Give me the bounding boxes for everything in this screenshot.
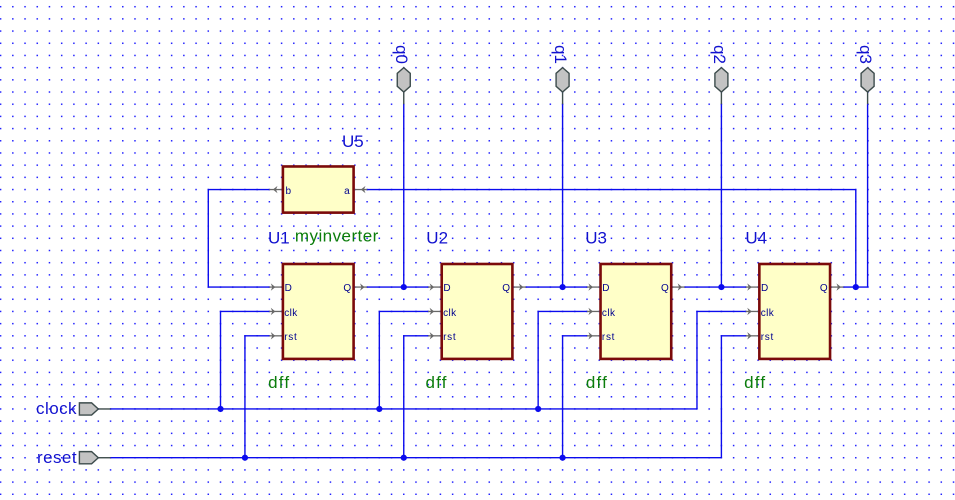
svg-text:dff: dff: [744, 373, 766, 392]
svg-text:Q: Q: [502, 283, 510, 294]
pin clk: [428, 310, 440, 312]
svg-text:b: b: [285, 186, 291, 197]
pin Q: [673, 286, 685, 288]
svg-text:Q: Q: [343, 283, 351, 294]
svg-text:a: a: [344, 186, 350, 197]
svg-text:clk: clk: [284, 308, 298, 319]
svg-text:rst: rst: [284, 332, 297, 343]
svg-text:myinverter: myinverter: [295, 226, 379, 245]
junction reset at U2 tap: [401, 455, 407, 461]
output port q1: [556, 68, 569, 105]
wire U4.Q to q3: [844, 286, 868, 288]
wire clock riser to U3 clk: [538, 311, 587, 409]
wire q0 vertical: [403, 104, 405, 287]
wire q1 vertical: [562, 104, 564, 287]
junction reset at U3 tap: [559, 455, 565, 461]
junction q0 on Q wire: [401, 284, 407, 290]
pin b (output): [269, 189, 281, 191]
pin D: [746, 286, 758, 288]
junction clock at U2 tap: [376, 406, 382, 412]
svg-text:q3: q3: [856, 45, 875, 64]
junction reset at U1 tap: [242, 455, 248, 461]
svg-text:q2: q2: [710, 45, 729, 64]
junction q2 on Q wire: [718, 284, 724, 290]
flip-flop U2 (dff): [428, 264, 526, 359]
wire clock net horizontal: [110, 408, 697, 410]
pin clk: [269, 310, 281, 312]
wire q2 vertical: [720, 104, 722, 287]
pin Q: [355, 286, 367, 288]
output port q0: [397, 68, 410, 105]
svg-text:D: D: [285, 283, 292, 294]
wire clock riser to U4 clk: [697, 311, 746, 409]
svg-text:U5: U5: [342, 132, 364, 151]
pin a (input): [355, 189, 367, 191]
wire clock riser to U2 clk: [379, 311, 428, 409]
pin clk: [587, 310, 599, 312]
svg-text:dff: dff: [426, 373, 448, 392]
output port q3: [861, 68, 874, 105]
svg-text:D: D: [443, 283, 450, 294]
wire reset riser to U3 rst: [563, 336, 587, 458]
svg-text:U3: U3: [585, 229, 607, 248]
svg-text:D: D: [761, 283, 768, 294]
junction q1 on Q wire: [559, 284, 565, 290]
svg-text:dff: dff: [268, 373, 290, 392]
wire reset riser to U1 rst: [245, 336, 269, 458]
svg-text:U4: U4: [745, 229, 767, 248]
inverter U5 (myinverter): [269, 166, 367, 212]
wire U3.Q to U4.D: [685, 286, 746, 288]
junction clock at U3 tap: [535, 406, 541, 412]
pin D: [269, 286, 281, 288]
pin rst: [587, 335, 599, 337]
flip-flop U4 (dff): [746, 264, 844, 359]
pin Q: [831, 286, 843, 288]
pin D: [428, 286, 440, 288]
pin Q: [514, 286, 526, 288]
svg-text:q1: q1: [551, 45, 570, 64]
svg-text:Q: Q: [661, 283, 669, 294]
input port clock: [79, 403, 110, 415]
wire U1.Q to U2.D: [367, 286, 428, 288]
wire reset net horizontal: [110, 457, 721, 459]
junction clock at U1 tap: [217, 406, 223, 412]
wire q3 vertical: [867, 104, 869, 287]
output port q2: [715, 68, 728, 105]
svg-text:q0: q0: [392, 45, 411, 64]
svg-text:reset: reset: [37, 448, 77, 467]
pin rst: [746, 335, 758, 337]
svg-text:Q: Q: [820, 283, 828, 294]
junction feedback tap on U4.Q wire: [853, 284, 859, 290]
wire U2.Q to U3.D: [526, 286, 587, 288]
pin rst: [428, 335, 440, 337]
svg-text:clk: clk: [443, 308, 457, 319]
flip-flop U3 (dff): [587, 264, 685, 359]
svg-text:D: D: [602, 283, 609, 294]
wire U5.b to U1.D: [208, 190, 269, 288]
wire feedback U4.Q to U5.a: [367, 190, 856, 288]
svg-text:clk: clk: [602, 308, 616, 319]
pin rst: [269, 335, 281, 337]
svg-text:dff: dff: [586, 373, 608, 392]
svg-text:rst: rst: [443, 332, 456, 343]
svg-text:clk: clk: [761, 308, 775, 319]
svg-text:U1: U1: [268, 229, 290, 248]
flip-flop U1 (dff): [269, 264, 367, 359]
wire reset riser to U4 rst: [721, 336, 745, 458]
wire reset riser to U2 rst: [404, 336, 428, 458]
pin D: [587, 286, 599, 288]
input port reset: [79, 452, 110, 464]
svg-text:rst: rst: [761, 332, 774, 343]
svg-text:clock: clock: [36, 399, 77, 418]
svg-text:U2: U2: [426, 229, 448, 248]
wire clock riser to U1 clk: [221, 311, 270, 409]
svg-text:rst: rst: [602, 332, 615, 343]
pin clk: [746, 310, 758, 312]
